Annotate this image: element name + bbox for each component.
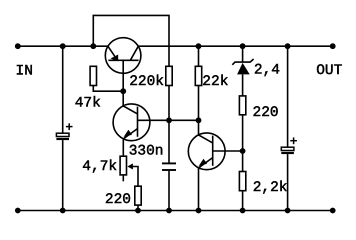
transistor Q1 (PNP pass transistor) body — [105, 38, 141, 74]
node ground terminal right — [330, 208, 336, 214]
transistor Q2 emitter arrow (NPN) — [124, 130, 132, 137]
svg-text:2,2k: 2,2k — [253, 180, 288, 196]
capacitor 330n bottom plate — [162, 169, 176, 171]
capacitor C1 negative plate — [56, 138, 69, 140]
zener diode 2,4V cathode bar — [232, 59, 253, 65]
svg-text:OUT: OUT — [316, 63, 342, 79]
wire Q2 emitter to potentiometer — [122, 139, 124, 156]
svg-text:4,7k: 4,7k — [82, 159, 117, 175]
transistor Q3 (NPN error amp) body — [188, 133, 225, 170]
node junction 22k / Q3 collector — [196, 117, 202, 123]
transistor Q3 collector diagonal — [199, 135, 213, 143]
transistor Q2 collector diagonal — [123, 106, 137, 114]
wire potentiometer bottom stub — [122, 175, 124, 181]
wire Q3 base node to 2,2k — [242, 151, 244, 172]
node junction C1 / top rail — [60, 43, 66, 49]
capacitor C2 (output electrolytic) plus sign — [290, 137, 297, 144]
capacitor C2 negative plate — [281, 152, 294, 154]
zener diode 2,4V anode triangle — [237, 63, 250, 75]
wire Q3 collector lead — [198, 120, 200, 135]
transistor Q1 emitter diagonal — [108, 46, 117, 59]
wire Q3 emitter to ground rail — [198, 168, 200, 211]
wire 47k bottom lead to Q1 base — [93, 86, 123, 92]
wire 22k bottom lead — [198, 86, 200, 121]
capacitor C1 (input electrolytic) plus sign — [66, 123, 73, 130]
node junction C1 / ground rail — [60, 208, 66, 214]
wire input cap C1 bottom lead — [62, 140, 64, 210]
node junction Q3 base / divider — [240, 148, 246, 154]
node junction 47k / Q1 base — [120, 88, 126, 94]
transistor Q1 collector diagonal — [130, 46, 138, 60]
wire top feedback loop (over Q1) — [93, 15, 169, 66]
wire output cap top lead — [287, 46, 289, 147]
wire Q2 base line to 330n and 22k — [138, 119, 199, 121]
node junction output cap / top rail — [285, 43, 291, 49]
transistor Q1 emitter arrow (PNP) — [111, 55, 119, 62]
node junction Q3 emitter / ground rail — [196, 208, 202, 214]
resistor 22k — [195, 66, 201, 85]
wire 220 to Q3 base node — [242, 115, 244, 151]
svg-text:220k: 220k — [129, 74, 164, 90]
wire 220k bottom lead — [168, 86, 170, 121]
wire top rail left (IN to Q1 emitter) — [18, 45, 108, 47]
resistor 220 (zener bias) — [239, 96, 245, 115]
wire 220 bottom lead — [137, 205, 139, 210]
wire 330n bottom lead — [168, 171, 170, 211]
transistor Q2 (NPN driver) body — [113, 104, 150, 141]
svg-text:47k: 47k — [75, 95, 101, 111]
svg-text:330n: 330n — [129, 144, 164, 160]
wire top rail right (Q1 collector to OUT) — [138, 45, 332, 47]
transistor Q3 base bar — [212, 136, 214, 166]
node junction 2,2k / ground rail — [240, 208, 246, 214]
wire Q1 base down to Q2 collector — [122, 60, 124, 106]
svg-text:2,4: 2,4 — [254, 62, 280, 78]
capacitor 330n top plate — [162, 162, 176, 164]
resistor 2,2k — [239, 172, 245, 191]
wire input cap C1 top lead — [62, 46, 64, 133]
node OUT terminal — [330, 43, 336, 49]
svg-text:220: 220 — [105, 192, 131, 208]
resistor 220k — [166, 66, 172, 85]
svg-text:220: 220 — [253, 105, 279, 121]
potentiometer 4,7k body — [120, 156, 126, 175]
wire Q3 base lead to divider — [213, 150, 243, 152]
node ground terminal left — [15, 208, 21, 214]
wire 22k top lead — [198, 46, 200, 66]
node junction 22k / top rail — [196, 43, 202, 49]
wire output cap bottom lead — [287, 154, 289, 210]
transistor Q1 base bar — [108, 59, 138, 61]
transistor Q2 base bar — [137, 107, 139, 137]
node junction 220k / Q2 base line / 330n — [166, 117, 172, 123]
transistor Q3 emitter arrow (NPN) — [199, 159, 207, 166]
capacitor C2 positive plate (boxed) — [281, 147, 294, 150]
wire 2,2k bottom lead — [242, 191, 244, 211]
node IN terminal — [15, 43, 21, 49]
wire 330n top lead — [168, 120, 170, 162]
node junction zener / top rail — [240, 43, 246, 49]
wire zener anode to 220 resistor — [242, 74, 244, 96]
potentiometer 4,7k wiper arrow — [127, 163, 132, 169]
node junction 47k / loop / top rail — [90, 43, 96, 49]
transistor Q3 emitter diagonal — [199, 158, 213, 168]
svg-text:22k: 22k — [202, 74, 228, 90]
transistor Q2 emitter diagonal — [123, 129, 137, 139]
resistor 47k — [90, 66, 96, 85]
capacitor C1 positive plate (boxed) — [56, 133, 69, 136]
wire zener cathode lead — [242, 46, 244, 62]
node junction 330n / ground rail — [166, 208, 172, 214]
node junction 220 / ground rail — [135, 208, 141, 214]
wire bottom ground rail — [18, 210, 333, 212]
node junction output cap / ground rail — [285, 208, 291, 214]
svg-text:IN: IN — [16, 63, 33, 79]
resistor 220 (emitter) — [135, 186, 141, 205]
wire wiper to 220 resistor — [133, 167, 139, 187]
